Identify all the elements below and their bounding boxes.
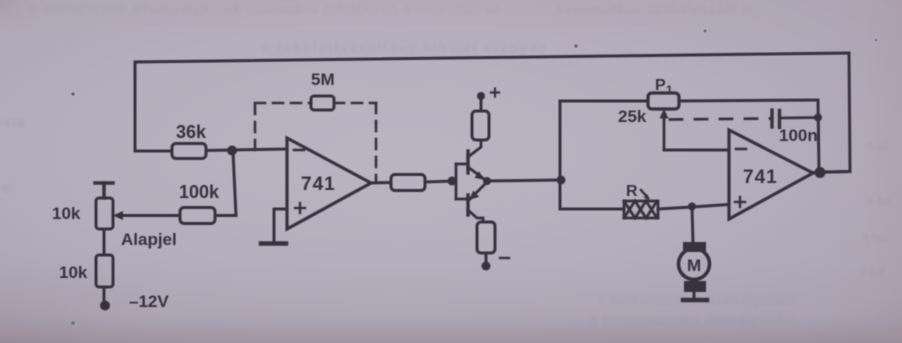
capacitor C1 100n dashed link [670,119,770,120]
wire resistor to transistor bases [425,181,453,182]
svg-text:s be: s be [866,193,892,208]
svg-text:a fordulatszabo szabályozási: a fordulatszabo szabályozási [590,312,797,327]
svg-text:25k: 25k [618,107,647,126]
svg-text:–12V: –12V [129,292,169,311]
wire lower 10k to -12V terminal [103,287,106,303]
node motor junction [688,203,696,211]
wire P1 wiper to U2 inverting input [664,149,728,152]
resistor collector upper [472,111,489,140]
svg-text:azonosítása szabályozási n: azonosítása szabályozási n [556,1,751,16]
svg-text:741: 741 [301,174,336,195]
label -12V [129,292,169,311]
wire input row to 36k [135,150,172,153]
wire node to motor [692,207,693,242]
motor M [683,242,706,252]
dashed feedback branch right vertical [375,103,378,183]
label 100k [179,182,220,202]
resistor collector lower [477,222,495,253]
transistor Q2 (PNP lower) [466,195,469,215]
terminal - supply dot [482,262,491,271]
wire main feedback loop (top + left + right verticals) [135,53,850,172]
svg-text:t el: t el [0,180,13,195]
wire emitters to node A [487,180,560,181]
wire R to U2 + input [658,205,729,210]
svg-text:a formálisabb állampolgárnak: a formálisabb állampolgárnak szavazása m… [30,1,501,16]
node A dot [557,176,566,185]
resistor R2 (base resistor, unlabeled) [391,175,425,191]
ground [261,241,286,246]
svg-text:1: 1 [666,83,673,97]
node junction of 36k,100k and inverting input [227,146,237,156]
wire U1 output [371,181,391,185]
terminal -12V dot [100,301,110,311]
wiper arrow P1 [660,109,669,151]
resistor 36k [172,144,206,159]
svg-text:100n: 100n [779,126,818,145]
svg-text:R: R [626,183,638,200]
dashed feedback branch left vertical [254,104,257,152]
wire 100k to riser [215,214,236,217]
svg-text:10k: 10k [59,263,88,282]
ink specks [71,30,877,325]
node emitter junction [483,177,491,185]
wire P1 right to cap rail [679,100,818,101]
svg-text:5M: 5M [311,70,335,89]
label + supply [491,89,499,97]
resistor 100k [180,208,215,224]
capacitor C1 plates [772,110,780,128]
label 36k [176,122,207,142]
resistor R sensor [624,201,658,218]
label 5M [311,70,335,89]
terminal + supply dot [477,92,485,100]
wire pot to lower 10k [103,229,106,255]
label 741 (U1) [301,174,336,195]
label 25k [618,107,647,126]
label 741 (U2) [743,167,778,188]
wire motor to foot [693,292,696,298]
svg-text:100k: 100k [179,182,220,202]
transistor Q1 (NPN upper) [466,151,469,173]
svg-text:741: 741 [743,167,778,188]
wire lower resistor to - supply [485,253,488,263]
potentiometer P1 25k [648,93,679,109]
svg-text:i ad: i ad [862,264,884,279]
svg-text:a tobbletfeszultseg hibajel ar: a tobbletfeszultseg hibajel aranyos [262,40,548,55]
resistor 10k (lower) [96,255,113,287]
wire 100k vertical riser [233,152,236,216]
svg-text:10k: 10k [52,204,81,223]
terminal T-bar top of divider [95,183,113,198]
plus sign U1 [295,203,305,213]
minus sign U2 [736,148,746,151]
label R [626,183,638,200]
svg-text:36k: 36k [176,122,207,142]
wire + supply to collector resistor [480,98,483,111]
wire pot wiper to 100k [119,214,180,217]
dashed feedback branch top run [255,102,376,105]
label P1 [655,77,673,97]
minus sign U1 [294,149,304,152]
node base junction [448,177,457,186]
wire cap to rail [781,116,818,119]
label 10k upper [52,204,81,223]
node A vertical rail [560,101,648,180]
svg-text:b sza: b sza [0,115,25,130]
wire 36k to op-amp inverting input [206,149,287,151]
potentiometer 10k (upper) [96,198,113,229]
node U2 output [815,167,826,178]
resistor 5M [311,96,334,110]
wire U1 + input to ground [274,209,287,242]
svg-text:s al: s al [866,138,888,153]
op-amp U2 741 [729,130,813,219]
svg-text:P: P [655,77,666,94]
svg-text:Alapjel: Alapjel [121,230,177,249]
wire common base rail [456,164,468,199]
op-amp U1 741 [287,138,371,229]
label Alapjel [121,230,177,249]
wire U2 output to main loop [813,172,850,173]
svg-text:M: M [687,256,701,275]
wire cap rail vertical [818,100,819,172]
ground foot of motor [683,298,707,303]
label 100n [779,126,818,145]
arrow on R [641,190,650,200]
label - supply [500,257,509,259]
wiper arrow of 10k pot [113,211,130,220]
plus sign U2 [735,197,745,207]
svg-text:t ha: t ha [864,230,888,245]
node cap junction [814,114,822,122]
label 10k lower [59,263,88,282]
